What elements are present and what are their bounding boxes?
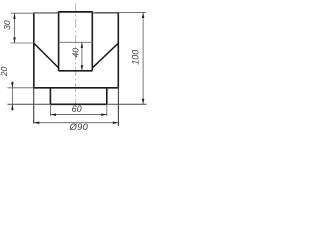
svg-text:60: 60 <box>72 104 82 114</box>
right body edge <box>117 13 119 88</box>
dim 90 left extension line <box>33 88 35 124</box>
dim 40 line <box>81 42 83 71</box>
dim 60 right extension line <box>106 104 108 116</box>
V-groove right flank diagonal <box>92 43 118 68</box>
dim 100 line <box>142 12 144 104</box>
dim 100 lower arrow <box>142 99 145 105</box>
dim 60 line <box>50 114 106 116</box>
V-groove left flank diagonal <box>34 43 59 68</box>
dim 90 left arrow <box>34 121 40 124</box>
dim 60 left extension line <box>49 104 51 116</box>
lower boss right edge <box>106 88 108 105</box>
dim 100 upper arrow <box>142 12 145 18</box>
dim 20 lower extension line <box>8 103 51 105</box>
dim 30 upper arrow <box>13 13 16 19</box>
dim 90 right arrow <box>113 121 119 124</box>
dim 20 upper extension line <box>8 87 34 89</box>
svg-text:40: 40 <box>70 48 80 58</box>
dim 100 top extension line <box>95 11 146 13</box>
dim 30 top extension line <box>11 12 34 14</box>
dim 90 right extension line <box>117 88 119 126</box>
dim 100 bottom extension line <box>107 103 147 105</box>
left body edge <box>33 13 35 88</box>
dim 40 upper arrow <box>81 42 84 48</box>
dim 20 upper arrow (outside, pointing down) <box>11 82 14 88</box>
slot bottom edge <box>59 70 93 72</box>
dim 60 left arrow <box>50 113 56 116</box>
dim 20 lower arrow (outside, pointing up) <box>11 104 14 110</box>
dim 20 line <box>11 81 13 110</box>
svg-text:30: 30 <box>2 20 12 30</box>
centerline (vertical axis of part) <box>75 3 77 106</box>
dim 60 right arrow <box>101 113 107 116</box>
boss top edge <box>59 11 93 13</box>
shoulder edge (body bottom) <box>34 87 119 89</box>
dim 30 bottom extension line <box>11 42 34 44</box>
lower boss left edge <box>49 88 51 105</box>
top edge left segment <box>34 12 59 14</box>
V-groove inner edge (thin line across slot) <box>59 41 93 43</box>
slot left wall <box>58 11 60 71</box>
dim 30 line <box>14 13 16 43</box>
dim 30 lower arrow <box>13 37 16 43</box>
dim 90 line <box>34 122 119 124</box>
top edge right segment <box>92 12 118 14</box>
dim 40 lower arrow <box>81 65 84 71</box>
svg-text:Ø90: Ø90 <box>69 122 89 132</box>
slot right wall <box>91 11 93 71</box>
bottom edge <box>50 103 106 105</box>
svg-text:20: 20 <box>0 67 9 78</box>
svg-text:100: 100 <box>131 50 141 65</box>
